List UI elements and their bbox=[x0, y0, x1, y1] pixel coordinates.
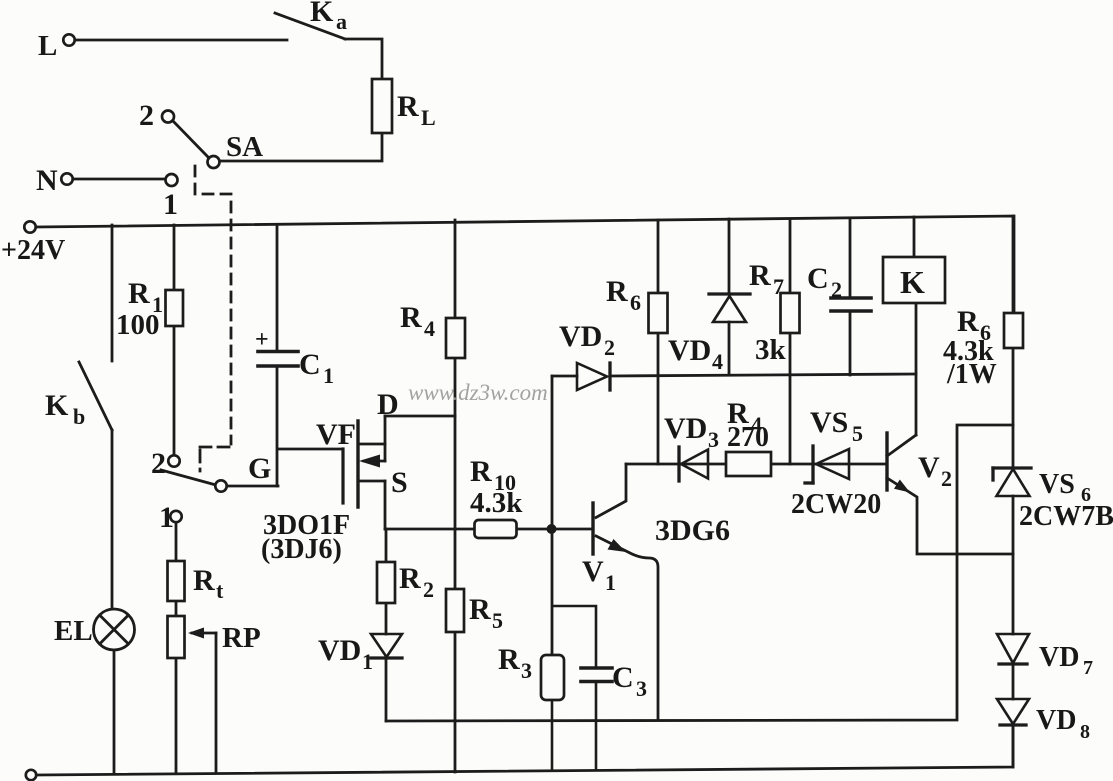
svg-text:K: K bbox=[900, 264, 925, 300]
svg-text:5: 5 bbox=[852, 421, 863, 446]
svg-text:R: R bbox=[128, 277, 150, 310]
svg-text:R: R bbox=[470, 455, 492, 488]
svg-text:C: C bbox=[807, 262, 829, 295]
svg-text:R: R bbox=[399, 562, 421, 595]
svg-text:R: R bbox=[606, 275, 628, 308]
svg-text:7: 7 bbox=[773, 274, 784, 299]
svg-text:R: R bbox=[469, 593, 491, 626]
svg-text:7: 7 bbox=[1083, 657, 1093, 679]
svg-text:VD: VD bbox=[668, 334, 711, 367]
svg-text:2CW20: 2CW20 bbox=[791, 489, 881, 520]
svg-text:1: 1 bbox=[605, 570, 616, 595]
svg-text:3DG6: 3DG6 bbox=[655, 514, 730, 547]
svg-text:2: 2 bbox=[604, 335, 615, 360]
svg-text:1: 1 bbox=[362, 649, 373, 674]
svg-text:6: 6 bbox=[630, 290, 641, 315]
svg-text:R: R bbox=[957, 305, 979, 338]
svg-text:VS: VS bbox=[810, 406, 848, 439]
svg-text:C: C bbox=[299, 348, 321, 381]
svg-text:4: 4 bbox=[424, 316, 435, 341]
svg-text:10: 10 bbox=[494, 470, 516, 495]
svg-text:VD: VD bbox=[1036, 705, 1076, 736]
svg-text:L: L bbox=[38, 30, 57, 62]
svg-text:R: R bbox=[397, 90, 419, 123]
svg-text:6: 6 bbox=[980, 320, 991, 345]
svg-text:RP: RP bbox=[222, 622, 261, 654]
svg-text:N: N bbox=[36, 164, 58, 197]
svg-text:2: 2 bbox=[423, 577, 434, 602]
svg-text:2: 2 bbox=[941, 466, 952, 491]
svg-text:3: 3 bbox=[708, 427, 719, 452]
svg-text:VD: VD bbox=[559, 320, 602, 353]
svg-text:D: D bbox=[377, 388, 399, 421]
svg-text:VD: VD bbox=[664, 412, 707, 445]
svg-text:VF: VF bbox=[316, 418, 356, 451]
svg-text:EL: EL bbox=[54, 615, 93, 647]
svg-text:VS: VS bbox=[1039, 469, 1075, 500]
svg-text:(3DJ6): (3DJ6) bbox=[261, 534, 342, 565]
svg-text:270: 270 bbox=[727, 422, 769, 453]
svg-text:VD: VD bbox=[318, 634, 361, 667]
svg-text:2: 2 bbox=[139, 99, 154, 132]
svg-text:3: 3 bbox=[521, 658, 532, 683]
svg-text:6: 6 bbox=[1081, 484, 1091, 506]
svg-text:L: L bbox=[421, 105, 436, 130]
svg-text:R: R bbox=[193, 564, 215, 597]
svg-text:G: G bbox=[248, 452, 271, 485]
svg-text:2: 2 bbox=[831, 277, 842, 302]
svg-text:2: 2 bbox=[151, 447, 166, 480]
svg-text:VD: VD bbox=[1039, 642, 1079, 673]
svg-text:R: R bbox=[400, 301, 422, 334]
svg-text:R: R bbox=[498, 643, 520, 676]
svg-text:a: a bbox=[336, 9, 347, 34]
svg-text:+24V: +24V bbox=[1, 235, 65, 266]
svg-text:1: 1 bbox=[152, 292, 163, 317]
svg-text:4: 4 bbox=[712, 349, 723, 374]
svg-text:b: b bbox=[73, 404, 85, 429]
svg-text:5: 5 bbox=[492, 608, 503, 633]
svg-text:+: + bbox=[255, 327, 269, 353]
svg-text:S: S bbox=[391, 466, 408, 499]
svg-text:/1W: /1W bbox=[946, 359, 997, 390]
svg-text:V: V bbox=[582, 555, 604, 588]
svg-text:C: C bbox=[612, 661, 634, 694]
svg-text:t: t bbox=[216, 578, 224, 603]
svg-text:3: 3 bbox=[636, 676, 647, 701]
svg-text:V: V bbox=[918, 451, 940, 484]
svg-text:www.dz3w.com: www.dz3w.com bbox=[408, 380, 548, 405]
svg-text:8: 8 bbox=[1080, 721, 1090, 743]
svg-text:R: R bbox=[749, 259, 771, 292]
svg-text:SA: SA bbox=[226, 131, 263, 163]
svg-text:1: 1 bbox=[159, 501, 174, 534]
svg-text:1: 1 bbox=[163, 188, 178, 221]
svg-text:2CW7B: 2CW7B bbox=[1019, 501, 1113, 532]
svg-text:4: 4 bbox=[751, 412, 762, 437]
svg-text:3k: 3k bbox=[755, 334, 787, 366]
svg-text:K: K bbox=[45, 389, 69, 422]
svg-text:1: 1 bbox=[323, 363, 334, 388]
svg-text:K: K bbox=[310, 0, 334, 28]
